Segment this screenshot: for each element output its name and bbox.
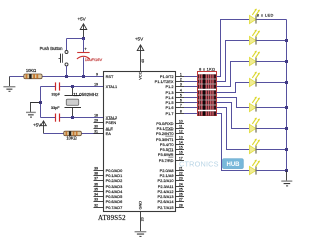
resistor RN1.4 1K [198, 90, 216, 94]
wire P1.2 pin 3 to network [184, 86, 198, 88]
svg-text:CTRONICS: CTRONICS [179, 160, 219, 169]
wire LED cathode bus [286, 20, 288, 171]
wire EA net [44, 133, 104, 135]
node bus junction [285, 81, 288, 84]
wire P1.3 pin 4 to network [184, 92, 198, 94]
overline PSEN [106, 118, 116, 120]
LED D5 [249, 97, 259, 112]
node crystal-gnd junction [39, 101, 42, 104]
node XTAL2 junction [71, 116, 74, 119]
power +5V (EA pin) [33, 121, 46, 134]
wire network out 3 to LED 3 [217, 62, 250, 87]
svg-text:36: 36 [94, 182, 98, 186]
overline EA [106, 129, 111, 131]
svg-text:9: 9 [96, 72, 98, 76]
resistor R1 10K (reset pulldown) [24, 68, 42, 79]
wire P1.1 pin 2 to network [184, 81, 198, 83]
svg-text:35: 35 [94, 187, 98, 191]
svg-text:40: 40 [141, 59, 145, 63]
node bus junction [285, 127, 288, 130]
node XTAL1 junction [71, 85, 74, 88]
svg-text:26: 26 [179, 192, 183, 196]
node bus junction [285, 148, 288, 151]
resistor RN1.1 1K [198, 74, 216, 78]
wire LED 5 cathode to bus [257, 107, 287, 109]
svg-text:7: 7 [180, 103, 182, 107]
svg-text:34: 34 [94, 192, 98, 196]
wire LED 8 cathode to bus [257, 170, 287, 172]
svg-text:P2.6/A14: P2.6/A14 [157, 199, 174, 204]
wire LED 4 cathode to bus [257, 82, 287, 84]
svg-text:33pF: 33pF [51, 106, 60, 110]
wire P1.7 pin 8 to network [184, 113, 198, 115]
power +5V (reset circuit) [77, 17, 86, 39]
svg-text:29: 29 [94, 118, 98, 122]
svg-text:RST: RST [106, 74, 114, 79]
node C (cap/rail junction) [82, 75, 85, 78]
MCU left pins [94, 72, 124, 210]
svg-text:P2.2/A10: P2.2/A10 [157, 178, 174, 183]
svg-text:23: 23 [179, 176, 183, 180]
LED D8 [249, 160, 259, 175]
wire +5V node down to capacitor [83, 39, 85, 53]
svg-text:2: 2 [180, 77, 182, 81]
capacitor C3 10uF/16V [77, 46, 103, 76]
resistor R2 10K (EA pull-up) [64, 131, 82, 140]
svg-text:6: 6 [180, 98, 182, 102]
svg-text:Push Button: Push Button [40, 46, 63, 51]
wire LED 7 cathode to bus [257, 149, 287, 151]
wire network out 8 to LED 8 [217, 114, 250, 171]
capacitor C1 33pF [51, 82, 60, 96]
ground (crystal) [26, 103, 41, 118]
svg-text:11.0592MHz: 11.0592MHz [73, 92, 99, 97]
LED D4 [249, 72, 259, 87]
svg-text:33: 33 [94, 197, 98, 201]
node bus junction [285, 60, 288, 63]
svg-text:13: 13 [179, 135, 183, 139]
svg-text:8 x 1KΩ: 8 x 1KΩ [199, 66, 215, 71]
node bus junction [285, 169, 288, 172]
LED D6 [249, 118, 259, 133]
svg-text:P3.2/INT0: P3.2/INT0 [156, 131, 174, 136]
svg-text:10KΩ: 10KΩ [26, 68, 36, 73]
svg-text:27: 27 [179, 197, 183, 201]
svg-text:8 x LED: 8 x LED [257, 13, 274, 18]
wire network out 2 to LED 2 [217, 41, 250, 82]
wire network out 6 to LED 6 [217, 103, 250, 129]
ground (LED bus) [281, 171, 292, 187]
LED D2 [249, 30, 259, 45]
node A (+5V junction) [82, 37, 85, 40]
svg-text:8: 8 [180, 109, 182, 113]
svg-text:5: 5 [180, 93, 182, 97]
svg-text:P1.2: P1.2 [165, 84, 173, 89]
MCU right pins [155, 72, 184, 210]
wire LED 1 cathode to bus [257, 19, 287, 21]
wire LED 6 cathode to bus [257, 128, 287, 130]
svg-text:P1.7: P1.7 [165, 111, 173, 116]
svg-text:P2.7/A15: P2.7/A15 [157, 205, 173, 210]
svg-text:33pF: 33pF [51, 92, 60, 96]
resistor RN1.8 1K [198, 111, 216, 115]
node bus junction [285, 39, 288, 42]
svg-text:+5V: +5V [77, 17, 86, 22]
svg-text:19: 19 [94, 82, 98, 86]
svg-text:16: 16 [179, 150, 183, 154]
overline INT0 INT1 WR RD [165, 129, 173, 131]
svg-text:37: 37 [94, 176, 98, 180]
svg-text:VCC: VCC [137, 71, 142, 79]
wire network out 1 to LED 1 [217, 20, 250, 77]
svg-text:14: 14 [179, 140, 183, 144]
svg-text:P3.7/RD: P3.7/RD [159, 158, 174, 163]
svg-text:P1.6: P1.6 [165, 105, 173, 110]
svg-text:12: 12 [179, 129, 183, 133]
svg-text:38: 38 [94, 171, 98, 175]
wire network out 4 to LED 4 [217, 83, 250, 93]
svg-text:10: 10 [179, 119, 183, 123]
svg-text:AT89S52: AT89S52 [98, 215, 126, 222]
svg-text:4: 4 [180, 88, 182, 92]
crystal X1 11.0592MHz [65, 87, 100, 118]
capacitor C2 33pF [51, 106, 60, 122]
wire XTAL2 net [41, 117, 56, 119]
svg-text:21: 21 [179, 166, 183, 170]
svg-text:3: 3 [180, 82, 182, 86]
wire push button branch down [66, 39, 68, 51]
wire P1.5 pin 6 to network [184, 102, 198, 104]
node B (button/rail junction) [65, 75, 68, 78]
svg-text:39: 39 [94, 166, 98, 170]
wire P1.6 pin 7 to network [184, 107, 198, 109]
svg-text:P3.6/WR: P3.6/WR [158, 152, 174, 157]
wire P1.0 pin 1 to network [184, 76, 198, 78]
wire P1.4 pin 5 to network [184, 97, 198, 99]
svg-text:10uF/16V: 10uF/16V [85, 57, 103, 62]
LED D3 [249, 51, 259, 66]
wire +5V node to push button top [67, 38, 84, 40]
svg-text:32: 32 [94, 203, 98, 207]
svg-text:+: + [84, 46, 87, 51]
svg-text:1: 1 [180, 72, 182, 76]
svg-text:15: 15 [179, 145, 183, 149]
svg-text:30: 30 [94, 124, 98, 128]
svg-text:+5V: +5V [135, 36, 144, 41]
LED D7 [249, 139, 259, 154]
watermark ElectronicsHub [179, 159, 243, 169]
resistor network RN1 box [198, 72, 217, 116]
push button SW1 [40, 46, 68, 76]
svg-text:17: 17 [179, 156, 183, 160]
svg-text:10KΩ: 10KΩ [66, 135, 76, 140]
resistor RN1.2 1K [198, 79, 216, 83]
resistor RN1.6 1K [198, 100, 216, 104]
svg-text:P0.6/AD6: P0.6/AD6 [106, 199, 123, 204]
node bus junction [285, 106, 288, 109]
wire LED 2 cathode to bus [257, 40, 287, 42]
svg-text:28: 28 [179, 203, 183, 207]
resistor RN1.7 1K [198, 105, 216, 109]
svg-text:P0.2/AD2: P0.2/AD2 [106, 178, 123, 183]
svg-text:P0.7/AD7: P0.7/AD7 [106, 205, 123, 210]
wire left vertical between caps [40, 87, 42, 118]
svg-text:GND: GND [138, 201, 143, 210]
wire network out 5 to LED 5 [217, 98, 250, 108]
ground (MCU pin 20) [135, 201, 147, 237]
svg-text:PSEN: PSEN [106, 120, 117, 125]
LED D1 [249, 9, 259, 24]
wire XTAL1 net [41, 86, 56, 88]
svg-text:25: 25 [179, 187, 183, 191]
wire reset rail to RST pin [10, 76, 104, 78]
power +5V (VCC pin 40) [135, 36, 145, 79]
svg-text:24: 24 [179, 182, 183, 186]
svg-text:31: 31 [94, 129, 98, 133]
svg-text:EA: EA [106, 131, 112, 136]
microcontroller U1 AT89S52 [98, 72, 176, 223]
svg-text:XTAL1: XTAL1 [106, 84, 118, 89]
resistor RN1.5 1K [198, 95, 216, 99]
svg-text:22: 22 [179, 171, 183, 175]
ground (reset rail) [3, 77, 15, 92]
svg-text:18: 18 [94, 113, 98, 117]
resistor RN1.3 1K [198, 84, 216, 88]
svg-text:20: 20 [141, 217, 145, 221]
wire LED 3 cathode to bus [257, 61, 287, 63]
svg-text:HUB: HUB [227, 162, 241, 168]
wire network out 7 to LED 7 [217, 108, 250, 150]
svg-text:11: 11 [179, 124, 183, 128]
